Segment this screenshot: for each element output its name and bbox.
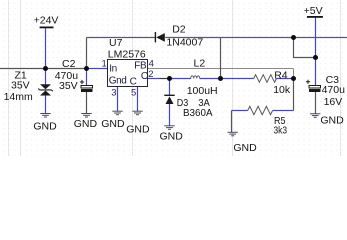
node input/C2/riser (84, 66, 89, 71)
wire +24V stem (45, 28, 47, 68)
svg-text:5: 5 (131, 88, 136, 99)
wire C3 bottom stem (315, 92, 317, 114)
ground R5 (228, 132, 238, 136)
capacitor C2 (80, 80, 93, 92)
wire Z1 top stem (45, 69, 47, 85)
svg-text:C2: C2 (62, 58, 76, 70)
svg-text:1N4007: 1N4007 (166, 36, 203, 48)
svg-text:Gnd: Gnd (109, 75, 127, 86)
node divider (291, 76, 296, 81)
svg-text:470u: 470u (322, 84, 346, 96)
wire R5 right segment (273, 110, 294, 112)
ground D3 (164, 126, 174, 130)
wire R4 to divider node (277, 78, 294, 80)
svg-text:LM2576: LM2576 (108, 49, 146, 61)
node output/L2 (218, 76, 223, 81)
wire R5 drop (293, 79, 295, 111)
svg-text:16V: 16V (324, 96, 343, 108)
wire input net (0, 68, 87, 70)
svg-text:+5V: +5V (304, 5, 323, 17)
wire C2 bottom stem (86, 92, 88, 114)
power symbol +24V (40, 27, 54, 29)
svg-text:D2: D2 (172, 24, 186, 36)
wire riser to top net (86, 38, 88, 69)
ground C3 (310, 114, 320, 118)
svg-text:R4: R4 (274, 69, 288, 81)
svg-text:C: C (130, 76, 137, 87)
resistor R4 (254, 75, 277, 83)
wire C3 top stem (315, 58, 317, 86)
wire IC pin3 stem (117, 87, 119, 112)
wire R5 left segment (232, 110, 248, 112)
wire FB net (148, 68, 294, 70)
sheet guide lines (9, 0, 341, 156)
diode D3 B360A (164, 95, 174, 104)
svg-text:GND: GND (160, 130, 184, 142)
svg-text:14mm: 14mm (4, 91, 33, 103)
svg-text:100uH: 100uH (187, 85, 218, 97)
node input/+24V/Z1 (43, 66, 48, 71)
svg-text:GND: GND (74, 118, 98, 130)
svg-text:L2: L2 (194, 57, 206, 69)
resistor R5 (248, 106, 273, 114)
ground Z1 (40, 114, 50, 118)
svg-text:B360A: B360A (183, 107, 213, 119)
wire C2 top stem (86, 69, 88, 86)
wire top net left of D2 (87, 37, 156, 39)
wire output node to R4 (221, 78, 254, 80)
inductor L2 (191, 76, 200, 79)
svg-text:GND: GND (33, 121, 57, 133)
svg-text:GND: GND (233, 142, 257, 154)
wire top net right of D2 (165, 37, 347, 39)
wire jog top net to +5V column (294, 38, 316, 58)
wire D3 node to L2 (170, 78, 191, 80)
capacitor C3 (306, 80, 321, 92)
wire +5V stem (315, 18, 317, 58)
TVS diode Z1 (38, 84, 52, 95)
node top net/jog (291, 35, 296, 40)
svg-text:35V: 35V (59, 80, 78, 92)
ground C2 (81, 114, 91, 118)
svg-text:GND: GND (320, 115, 344, 127)
svg-text:GND: GND (126, 123, 150, 135)
svg-text:3: 3 (111, 88, 116, 99)
svg-text:10k: 10k (273, 84, 291, 96)
node switch/D3 (167, 76, 172, 81)
wire FB drop (293, 69, 295, 79)
ground pin3 (112, 111, 122, 115)
wire Z1 bottom stem (45, 95, 47, 113)
wire D3 top stem (169, 79, 171, 95)
wire O pin stub (148, 78, 160, 80)
svg-text:3k3: 3k3 (274, 125, 288, 137)
regulator U7 LM2576 box (108, 60, 148, 87)
svg-text:2: 2 (148, 69, 153, 80)
svg-text:In: In (109, 63, 117, 74)
svg-text:+24V: +24V (34, 15, 59, 27)
wire D3 bottom stem (169, 104, 171, 126)
ground pin5 (132, 111, 142, 115)
svg-text:35V: 35V (11, 80, 30, 92)
power symbol +5V (307, 16, 323, 18)
wire R5 GND stem (231, 111, 233, 133)
node +5V/C3 (313, 55, 318, 60)
wire riser output to top net (220, 38, 222, 79)
wire IC pin5 stem (137, 87, 139, 112)
wire input to IC pin1 (87, 68, 108, 70)
svg-text:U7: U7 (109, 37, 123, 49)
node junction dots (43, 35, 318, 81)
svg-text:1: 1 (102, 59, 107, 70)
wire O pin to D3 node (160, 78, 170, 80)
wire L2 to output node (200, 78, 221, 80)
diode D2 1N4007 (155, 32, 164, 42)
svg-text:GND: GND (101, 118, 125, 130)
